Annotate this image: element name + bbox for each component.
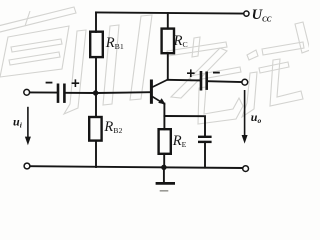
terminal Ucc — [244, 11, 249, 16]
polarity minus C1 — [46, 82, 53, 84]
transistor Q1 collector lead — [153, 80, 168, 87]
transistor Q1 base bar — [150, 81, 153, 102]
svg-text:RE: RE — [172, 133, 187, 149]
wire RB2 bottom — [95, 141, 97, 167]
transistor Q1 emitter lead — [153, 97, 164, 104]
wire emitter down — [163, 104, 165, 130]
watermark 百川考试 — [0, 7, 310, 124]
ground second bar faint — [161, 190, 168, 192]
polarity plus C1 — [72, 79, 80, 87]
wire base node to transistor base — [96, 91, 150, 94]
wire base node to RB2 — [95, 93, 97, 117]
ground bar — [157, 182, 174, 185]
wire emitter branch to CE — [164, 116, 205, 136]
wire input terminal to C1 — [30, 91, 57, 93]
capacitor C1 left plate — [57, 85, 60, 102]
svg-text:RB2: RB2 — [103, 119, 122, 135]
capacitor CE bottom plate — [199, 141, 210, 143]
capacitor C2 left plate — [200, 72, 203, 89]
wire C2 to output terminal — [208, 80, 242, 83]
capacitor C1 right plate — [63, 85, 66, 102]
junction dot base node — [93, 90, 98, 95]
transistor Q1 emitter arrowhead — [158, 98, 165, 104]
capacitor C2 right plate — [205, 73, 208, 89]
capacitor CE top plate — [199, 136, 210, 138]
wire RB1 top — [95, 12, 97, 32]
polarity plus C2 — [187, 69, 195, 77]
wire bottom rail — [30, 166, 242, 168]
arrowhead uo — [242, 135, 248, 144]
wire top supply rail — [96, 12, 244, 13]
resistor RB1 — [90, 32, 103, 57]
arrowhead ui — [25, 137, 31, 146]
wire collector node to C2 — [168, 79, 200, 82]
wire C1 to base node — [66, 92, 96, 94]
terminal input top — [24, 89, 30, 95]
terminal output top — [242, 79, 248, 85]
terminal output bottom — [243, 166, 249, 172]
wire RC top — [167, 13, 169, 29]
resistor RE — [159, 129, 171, 154]
resistor RC — [162, 29, 174, 54]
wire RB1 bottom to base node — [95, 57, 97, 93]
svg-text:UCC: UCC — [252, 7, 272, 23]
arrow ui line — [27, 108, 29, 139]
svg-text:ui: ui — [13, 114, 23, 129]
svg-text:uo: uo — [251, 110, 262, 125]
junction dot ground node — [161, 165, 166, 170]
resistor RB2 — [89, 117, 101, 141]
wire RC bottom to collector node — [167, 53, 169, 79]
wire CE bottom to rail — [204, 142, 206, 168]
terminal input bottom — [24, 163, 30, 169]
arrow uo line — [244, 91, 246, 137]
svg-text:RB1: RB1 — [105, 35, 124, 51]
svg-text:RC: RC — [173, 33, 188, 49]
polarity minus C2 — [213, 72, 220, 74]
ground stub — [163, 167, 165, 183]
wire RE bottom to ground node — [163, 154, 165, 167]
